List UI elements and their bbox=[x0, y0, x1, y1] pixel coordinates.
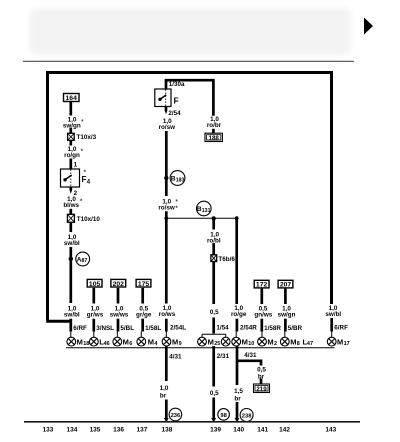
ground 98 bbox=[218, 409, 230, 421]
wire connection B183 bbox=[170, 171, 185, 186]
connector M25 right bbox=[221, 337, 230, 346]
svg-text:98: 98 bbox=[220, 413, 227, 419]
svg-text:1/58R: 1/58R bbox=[264, 325, 281, 332]
track number 142 bbox=[279, 427, 290, 434]
wire right bus to M17 bbox=[330, 318, 333, 337]
track number 140 bbox=[233, 427, 244, 434]
svg-text:M: M bbox=[123, 338, 129, 347]
svg-text:ro/br: ro/br bbox=[207, 122, 222, 129]
connector M17 bbox=[327, 337, 349, 347]
svg-text:M: M bbox=[337, 338, 343, 347]
node junction at A87 bbox=[69, 257, 73, 261]
label 1,0 sw/ws bbox=[110, 306, 129, 319]
svg-text:175: 175 bbox=[138, 281, 150, 288]
svg-text:1,5: 1,5 bbox=[234, 388, 243, 395]
pin 2/54L at M9 bbox=[165, 325, 186, 332]
svg-text:1/30a: 1/30a bbox=[169, 81, 185, 88]
svg-text:202: 202 bbox=[113, 281, 125, 288]
svg-text:gr/ge: gr/ge bbox=[136, 312, 152, 319]
svg-text:87: 87 bbox=[82, 258, 88, 264]
label 1,0 ro/br bbox=[207, 116, 222, 129]
pin 1/30a of F bbox=[165, 81, 185, 88]
svg-text:141: 141 bbox=[257, 427, 268, 434]
svg-text:M: M bbox=[172, 338, 178, 347]
wire 164 to T10x/3 sw/gn bbox=[69, 102, 72, 134]
pin 2/54R at M10 bbox=[236, 325, 258, 332]
wire ro/br to reference 188 bbox=[212, 129, 215, 133]
svg-text:5/BR: 5/BR bbox=[288, 325, 303, 332]
svg-text:gn/ws: gn/ws bbox=[254, 312, 272, 319]
pin 4/31 below M10 bbox=[244, 352, 257, 359]
connector M18 bbox=[67, 337, 89, 347]
svg-text:sw/gn: sw/gn bbox=[278, 312, 296, 319]
svg-text:T10x/3: T10x/3 bbox=[77, 134, 97, 141]
svg-text:46: 46 bbox=[104, 341, 110, 347]
wire left bus bend to M18 bbox=[46, 320, 71, 323]
label 1,0 ro/gn bbox=[64, 146, 83, 159]
label 1,0 ro/ws at M9 bbox=[159, 305, 176, 318]
svg-text:207: 207 bbox=[280, 282, 292, 289]
svg-text:5/BL: 5/BL bbox=[120, 325, 134, 332]
svg-text:2/31: 2/31 bbox=[217, 353, 230, 360]
svg-text:M: M bbox=[242, 338, 248, 347]
wire right branch down ro/ge bbox=[235, 218, 238, 337]
wire connection A87 bbox=[76, 252, 90, 266]
svg-text:105: 105 bbox=[89, 281, 101, 288]
svg-text:9: 9 bbox=[179, 341, 182, 347]
svg-text:sw/bl: sw/bl bbox=[325, 311, 341, 318]
header rule bbox=[23, 60, 354, 62]
node junction right branch bbox=[235, 216, 239, 220]
svg-text:ro/gn: ro/gn bbox=[64, 152, 80, 159]
svg-text:4: 4 bbox=[87, 180, 91, 186]
reference box 164 bbox=[64, 94, 80, 103]
reference box 172 bbox=[254, 280, 269, 288]
pin 4/31 below M9 bbox=[165, 349, 182, 360]
svg-text:17: 17 bbox=[344, 341, 350, 347]
svg-text:gr/ws: gr/ws bbox=[87, 312, 104, 319]
reference box 219 bbox=[254, 384, 270, 393]
svg-text:sw/bl: sw/bl bbox=[64, 312, 80, 319]
svg-text:3/NSL: 3/NSL bbox=[96, 325, 114, 332]
svg-text:172: 172 bbox=[256, 282, 268, 289]
svg-text:sw/gn: sw/gn bbox=[63, 122, 81, 129]
pin 6/RF at M17 bbox=[330, 325, 348, 332]
svg-text:2: 2 bbox=[274, 341, 277, 347]
label 1,0 gr/ws bbox=[87, 306, 104, 319]
wire T10x/3 to F4 ro/gn bbox=[69, 140, 72, 169]
svg-text:T6b/6: T6b/6 bbox=[218, 256, 235, 263]
wire F down ro/sw bbox=[165, 131, 168, 196]
svg-text:6/RF: 6/RF bbox=[334, 325, 348, 332]
svg-text:139: 139 bbox=[210, 427, 221, 434]
svg-text:136: 136 bbox=[113, 427, 124, 434]
wire M25 to ground 98 bbox=[211, 346, 216, 422]
svg-text:*: * bbox=[81, 149, 84, 156]
connector M2 bbox=[258, 337, 277, 347]
svg-text:6: 6 bbox=[129, 341, 132, 347]
connector T10x/10 bbox=[67, 214, 100, 223]
track number 143 bbox=[325, 427, 336, 434]
node junction main at B131 line bbox=[164, 216, 168, 220]
wire to M18 pin bbox=[69, 319, 72, 338]
reference box 207 bbox=[278, 280, 293, 288]
label 0,5 gn/ws bbox=[254, 306, 272, 319]
connector M9 bbox=[162, 337, 182, 347]
node junction B183 bbox=[164, 176, 168, 180]
connector T6b/6 bbox=[211, 255, 235, 263]
svg-text:br: br bbox=[160, 393, 167, 400]
svg-text:219: 219 bbox=[256, 386, 267, 393]
track number 137 bbox=[136, 427, 147, 434]
label 1,0 sw/bl bbox=[64, 234, 80, 247]
wire bus top (terminal 30a feed) bbox=[48, 73, 332, 321]
svg-text:*: * bbox=[80, 198, 83, 205]
svg-text:ro/sw: ro/sw bbox=[158, 204, 175, 211]
svg-text:135: 135 bbox=[90, 427, 101, 434]
wire 207 to M8 sw/gn bbox=[283, 289, 286, 338]
label 1,0 ro/bl bbox=[207, 231, 221, 244]
svg-text:M: M bbox=[148, 338, 154, 347]
track number 139 bbox=[210, 427, 221, 434]
svg-text:2/54R: 2/54R bbox=[240, 325, 257, 332]
wire M9 to ground 236 br bbox=[164, 346, 169, 422]
label 1,0 ro/sw lower with asterisks bbox=[158, 198, 178, 212]
svg-text:138: 138 bbox=[161, 427, 172, 434]
pin 6/RF at M18 bbox=[70, 325, 87, 333]
svg-text:ro/bl: ro/bl bbox=[207, 237, 221, 244]
pin 2/31 below M25 bbox=[212, 349, 229, 360]
svg-text:M: M bbox=[267, 338, 273, 347]
connector M8 bbox=[280, 337, 299, 347]
svg-text:ro/ge: ro/ge bbox=[231, 311, 247, 318]
bottom rule bbox=[24, 421, 360, 423]
track number 133 bbox=[43, 427, 54, 434]
wire 105 to L46 gr/ws bbox=[92, 288, 95, 338]
svg-text:143: 143 bbox=[325, 427, 336, 434]
svg-text:*: * bbox=[175, 205, 178, 212]
svg-text:188: 188 bbox=[209, 135, 220, 142]
svg-text:2/54: 2/54 bbox=[168, 110, 181, 117]
track number 135 bbox=[90, 427, 101, 434]
wire branch M10 to 219 br bbox=[237, 361, 261, 384]
ground 238 bbox=[240, 409, 253, 422]
svg-text:164: 164 bbox=[66, 95, 78, 102]
wire M10 to ground 238 br bbox=[235, 346, 240, 422]
pin 5/BR at M8 bbox=[284, 325, 302, 333]
svg-text:M: M bbox=[77, 338, 83, 347]
pin 2 of F4 bbox=[70, 187, 78, 197]
svg-text:M: M bbox=[208, 338, 214, 347]
wire ro/bl branch to T6b/6 bbox=[212, 218, 215, 254]
reference box 188 bbox=[205, 133, 222, 142]
wire connector strip bbox=[66, 347, 335, 349]
svg-text:ro/sw: ro/sw bbox=[159, 124, 176, 131]
connector M4 bbox=[137, 337, 158, 347]
wire 175 to M4 gr/ge bbox=[141, 288, 142, 338]
track number 136 bbox=[113, 427, 124, 434]
svg-text:F: F bbox=[174, 96, 179, 106]
pin 2/54 of F bbox=[165, 107, 181, 117]
ground 236 bbox=[169, 408, 182, 421]
wire 172 to M2 gn/ws bbox=[260, 289, 263, 338]
label 1,0 bl/ws bbox=[63, 196, 82, 209]
svg-text:0,5: 0,5 bbox=[210, 309, 219, 316]
pin 1/58R at M2 bbox=[261, 325, 282, 333]
svg-text:4/31: 4/31 bbox=[244, 352, 257, 359]
connector M25 left bbox=[198, 337, 221, 347]
svg-text:br: br bbox=[234, 396, 241, 403]
svg-text:bl/ws: bl/ws bbox=[63, 202, 79, 209]
svg-text:131: 131 bbox=[202, 208, 211, 214]
svg-text:18: 18 bbox=[83, 341, 89, 347]
label 1,0 br at 236 bbox=[160, 385, 169, 400]
svg-text:134: 134 bbox=[66, 427, 77, 434]
svg-text:183: 183 bbox=[176, 177, 185, 183]
svg-text:T10x/10: T10x/10 bbox=[77, 216, 101, 223]
reference box 175 bbox=[136, 279, 151, 287]
svg-text:4: 4 bbox=[154, 341, 158, 347]
svg-text:2/54L: 2/54L bbox=[170, 325, 186, 332]
svg-text:M: M bbox=[290, 338, 296, 347]
node junction T6b branch bbox=[212, 216, 216, 220]
svg-text:1/54: 1/54 bbox=[216, 325, 229, 332]
connector M6 bbox=[113, 337, 132, 347]
pin 1/58L at M4 bbox=[141, 325, 161, 333]
svg-text:sw/ws: sw/ws bbox=[110, 312, 129, 319]
wire T6b/6 down 0,5 bbox=[212, 262, 215, 334]
svg-text:1,0: 1,0 bbox=[160, 385, 169, 392]
reference box 105 bbox=[87, 279, 102, 287]
pin 3/NSL at L46 bbox=[93, 325, 115, 333]
label 1,0 ro/sw upper bbox=[159, 118, 176, 131]
svg-text:1: 1 bbox=[74, 162, 78, 169]
svg-text:*: * bbox=[81, 119, 84, 126]
label 1,5 br at 238 bbox=[234, 388, 243, 403]
wire branch line at B131 bbox=[166, 217, 236, 219]
pin 1 of F4 bbox=[70, 162, 78, 169]
track number 134 bbox=[66, 427, 77, 434]
svg-text:4/31: 4/31 bbox=[169, 353, 182, 360]
svg-text:236: 236 bbox=[171, 413, 181, 419]
svg-text:sw/bl: sw/bl bbox=[64, 240, 80, 247]
svg-text:47: 47 bbox=[307, 341, 313, 347]
wire T10x/10 down sw/bl bbox=[69, 222, 72, 303]
wire F4 to T10x/10 bl/ws bbox=[69, 209, 72, 215]
svg-text:25: 25 bbox=[214, 341, 220, 347]
switch F (light switch) bbox=[155, 89, 179, 107]
label 0,5 at M25 bbox=[210, 309, 219, 316]
pin 1/54 at M25 bbox=[212, 325, 229, 332]
blurred header text block bbox=[29, 8, 351, 55]
label 0,5 at 98 bbox=[210, 390, 219, 397]
wire splice bar M25 bbox=[202, 334, 226, 337]
fuse/switch F4 bbox=[61, 169, 91, 187]
track number 138 bbox=[161, 427, 172, 434]
connector T10x/3 bbox=[68, 133, 97, 141]
label 0,5 gr/ge bbox=[136, 306, 152, 319]
svg-text:142: 142 bbox=[279, 427, 290, 434]
svg-text:6/RF: 6/RF bbox=[73, 325, 87, 332]
arrow marker triangle bbox=[364, 18, 373, 35]
label 1,0 sw/gn bbox=[63, 116, 84, 129]
track number 141 bbox=[257, 427, 268, 434]
svg-text:ro/ws: ro/ws bbox=[159, 311, 176, 318]
wire ro/ws main down to M9 bbox=[165, 211, 168, 337]
label 0,5 br at 219 bbox=[257, 367, 266, 381]
connector M10 bbox=[232, 337, 255, 347]
svg-text:238: 238 bbox=[242, 414, 252, 420]
label 1,0 sw/gn bbox=[278, 306, 296, 319]
svg-text:133: 133 bbox=[43, 427, 54, 434]
svg-text:1/58L: 1/58L bbox=[145, 325, 161, 332]
svg-text:140: 140 bbox=[233, 427, 244, 434]
wire 202 to M6 sw/ws bbox=[116, 288, 119, 338]
connector L46 bbox=[89, 337, 109, 347]
svg-text:137: 137 bbox=[136, 427, 147, 434]
wire connection B131 bbox=[197, 201, 212, 216]
label 1,0 sw/bl right bbox=[325, 305, 341, 318]
svg-text:br: br bbox=[258, 373, 265, 380]
connector label L47 bbox=[303, 338, 314, 348]
label 1,0 sw/bl lower bbox=[64, 306, 80, 319]
svg-text:*: * bbox=[84, 170, 87, 177]
reference box 202 bbox=[111, 279, 126, 287]
svg-text:8: 8 bbox=[297, 341, 300, 347]
svg-text:10: 10 bbox=[248, 341, 254, 347]
label 1,0 ro/ge bbox=[231, 305, 247, 318]
svg-text:0,5: 0,5 bbox=[210, 390, 219, 397]
pin 5/BL at M6 bbox=[117, 325, 134, 333]
wire terminal 30a branch to F bbox=[166, 80, 213, 116]
